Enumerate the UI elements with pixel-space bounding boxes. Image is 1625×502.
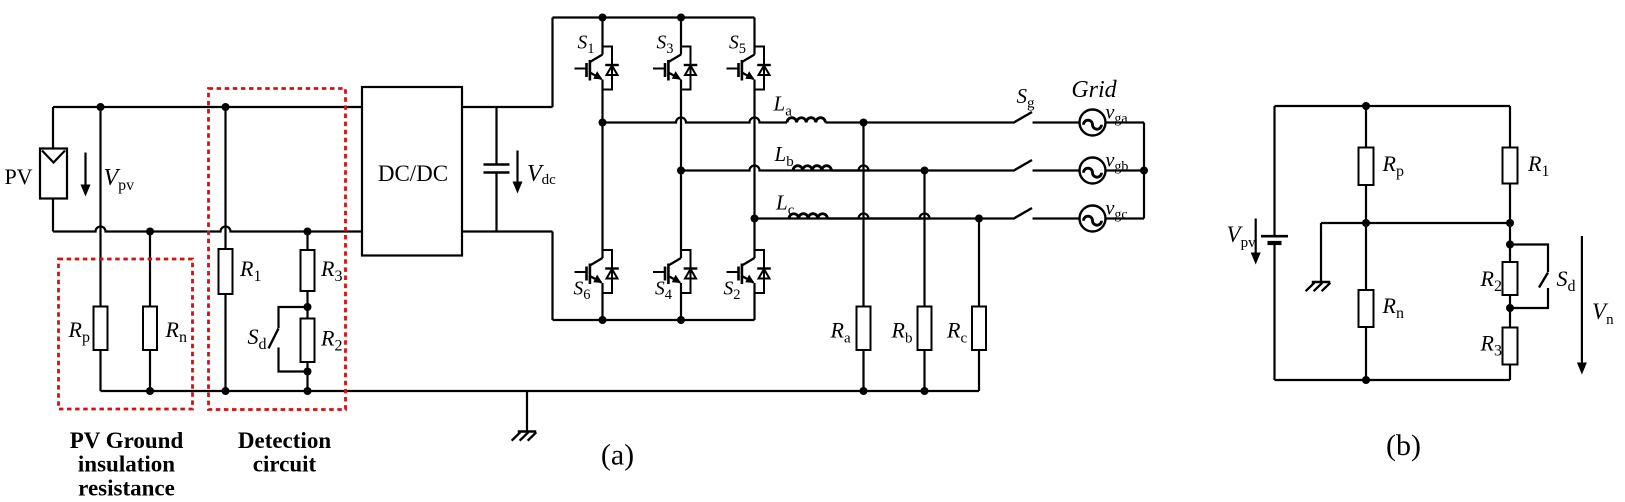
wire (b) left vertical lower [1273,243,1275,380]
wire leg3 S2 to bottom rail [753,283,755,320]
resistor Ra [857,307,871,351]
node (b) Sd bottom [1506,304,1514,312]
wire ground stub [526,391,528,432]
wire ground rail [101,390,980,392]
node ground rail / Rb [921,387,929,395]
wire R1 upper lead [224,107,226,249]
resistor Rc [972,307,986,351]
wire (b) ground drop [1320,223,1322,282]
wire phase b line [681,166,869,171]
wire R3 to node [306,291,308,319]
wire (b) Rn to bottom rail [1365,327,1367,380]
wire Ra branch [862,123,864,307]
node top rail / Vpv sense [97,103,105,111]
AC source vgc [1080,206,1106,232]
wire Rn branch [149,232,151,307]
battery Vpv [1261,235,1288,238]
wire Rp to ground rail [99,350,101,391]
wire negative rail with hops [53,227,362,232]
wire (b) R1 upper lead [1509,106,1511,148]
wire leg1 top rail to S1 [601,18,603,55]
node ground rail / Ra [860,387,868,395]
svg-text:(b): (b) [1386,429,1421,462]
wire R3 upper lead [306,232,308,251]
node negative rail / Rn [146,228,154,236]
node R3-R2 [304,303,312,311]
wire (b) R1 to node [1509,184,1511,263]
wire (b) Rp upper lead [1365,106,1367,148]
node negative rail / R3 [304,228,312,236]
capacitor Cdc upper lead [495,107,497,165]
wire R1 lower lead [224,294,226,391]
wire leg1 S1 to midpoint [601,80,603,123]
resistor R1 (b) [1503,148,1518,184]
node top rail / R1 [222,103,230,111]
wire DC link top [462,106,553,108]
node phase c / Rc [975,215,983,223]
block DC/DC converter [362,87,462,256]
wire (b) Rp to mid node [1365,185,1367,223]
PV source PV [40,149,67,199]
svg-text:Detection: Detection [238,428,331,453]
transistor S1 (IGBT with diode) [575,47,619,90]
node (b) Sd top [1506,241,1514,249]
switch Sd (b) blade [1539,273,1548,288]
wire leg1 midpoint to S6 [601,123,603,259]
wire Rb branch [923,171,925,307]
capacitor Cdc [484,163,510,165]
ground symbol (a) [518,430,537,432]
wire Vpv sense line down to Rp [99,107,101,307]
node phase a / Ra [860,119,868,127]
wire Rc branch [978,219,980,307]
node (b) middle [1362,219,1370,227]
wire leg3 S5 to midpoint [753,80,755,219]
svg-text:Grid: Grid [1071,77,1117,103]
node top rail leg2 [677,14,685,22]
wire (b) bottom rail [1275,379,1511,381]
resistor R1 [219,249,233,294]
wire (b) middle rail [1321,222,1510,224]
wire vga to neutral [1106,121,1145,123]
svg-text:(a): (a) [601,439,634,472]
wire (b) R3 to bottom rail [1509,365,1511,381]
wire leg1 S6 to bottom rail [601,283,603,320]
node ground rail / Rn [146,387,154,395]
wire leg3 top rail to S5 [753,18,755,55]
wire (b) Rn upper lead [1365,223,1367,290]
arrow Vn [1581,236,1583,365]
switch Sd bottom wire [279,348,308,372]
wire leg2 S4 to bottom rail [680,283,682,320]
svg-text:resistance: resistance [78,476,175,501]
inductor La [787,118,825,123]
resistor Rp (b) [1359,148,1374,186]
transistor S4 (IGBT with diode) [653,250,697,293]
wire phase a to source [1033,121,1081,123]
arrow Vdc [516,151,518,184]
wire vgb to neutral [1106,169,1145,171]
wire Ra to ground rail [862,350,864,391]
wire R2 to ground rail [306,362,308,391]
switch Sg phase b blade [1013,160,1032,171]
resistor R3 (b) [1503,328,1518,365]
node (b) right mid [1506,219,1514,227]
wire PV bottom lead [52,199,54,232]
wire bridge top rail [553,16,755,18]
capacitor Cdc lower lead [495,173,497,232]
wire leg3 midpoint to S2 [753,219,755,259]
wire DC link bottom [462,230,553,232]
wire DC bus riser bottom [551,232,553,321]
inductor Lb [793,166,831,171]
transistor S3 (IGBT with diode) [653,47,697,90]
wire leg2 top rail to S3 [680,18,682,55]
resistor Rb [918,307,932,351]
wire DC bus riser top [551,18,553,108]
resistor Rn (b) [1359,290,1374,327]
node ground rail / R2 [304,387,312,395]
wire PV top lead [52,107,54,149]
resistor R2 (b) [1503,262,1518,295]
AC source vgb [1080,158,1106,184]
transistor S6 (IGBT with diode) [575,250,619,293]
wire phase b to source [1033,169,1081,171]
wire (b) R2 to R3 [1509,295,1511,328]
wire leg2 midpoint to S4 [680,171,682,259]
arrow Vpv (b) [1255,219,1257,255]
arrow Vpv current direction [84,153,86,187]
wire bridge bottom rail [553,319,755,321]
wire Rn to ground rail [149,350,151,391]
switch Sg phase c blade [1013,208,1032,219]
switch Sd branch top wire [279,307,308,328]
resistor Rp [94,307,108,351]
node phase midpoint leg3 [751,215,759,223]
transistor S5 (IGBT with diode) [727,47,771,90]
switch Sd (b) bottom wire [1510,288,1548,308]
ground symbol (b) [1312,281,1331,283]
wire grid neutral vertical [1143,123,1145,219]
svg-text:circuit: circuit [253,452,317,477]
node phase midpoint leg1 [599,119,607,127]
node (b) bottom rail / Rn [1362,376,1370,384]
node R2 bottom [304,368,312,376]
wire top positive rail [53,106,362,108]
resistor Rn [143,307,157,351]
switch Sd blade [269,328,279,348]
wire leg2 S3 to midpoint [680,80,682,171]
wire phase b after Lb [831,169,1013,171]
resistor R2 [301,319,315,363]
svg-text:DC/DC: DC/DC [378,161,448,186]
node (b) top rail / Rp [1362,102,1370,110]
wire Rc to ground rail [978,350,980,391]
node bottom rail leg2 [677,316,685,324]
wire phase c to source [1033,217,1081,219]
AC source vga [1080,110,1106,136]
wire (b) top rail [1275,105,1511,107]
box PV ground insulation resistance (red dashed) [59,259,193,409]
node neutral / vgb [1140,167,1148,175]
transistor S2 (IGBT with diode) [727,250,771,293]
wire phase c after Lc [827,217,1013,219]
box detection circuit (red dashed) [209,89,346,410]
wire (b) left vertical upper [1273,106,1275,236]
wire phase a after La [825,121,1013,123]
wire Rb to ground rail [923,350,925,391]
node ground rail / R1 [222,387,230,395]
svg-text:insulation: insulation [78,452,175,477]
svg-text:PV: PV [4,164,32,189]
switch Sd (b) top wire [1510,245,1548,273]
wire vgc to neutral [1106,217,1145,219]
switch Sg phase a blade [1013,112,1032,123]
node top rail leg1 [599,14,607,22]
inductor Lc [789,214,827,219]
node phase b / Rb [921,167,929,175]
wire phase c line [755,214,930,219]
svg-text:PV Ground: PV Ground [70,428,184,453]
node phase midpoint leg2 [677,167,685,175]
node bottom rail leg1 [599,316,607,324]
wire phase a line [603,118,788,123]
resistor R3 [301,250,315,291]
